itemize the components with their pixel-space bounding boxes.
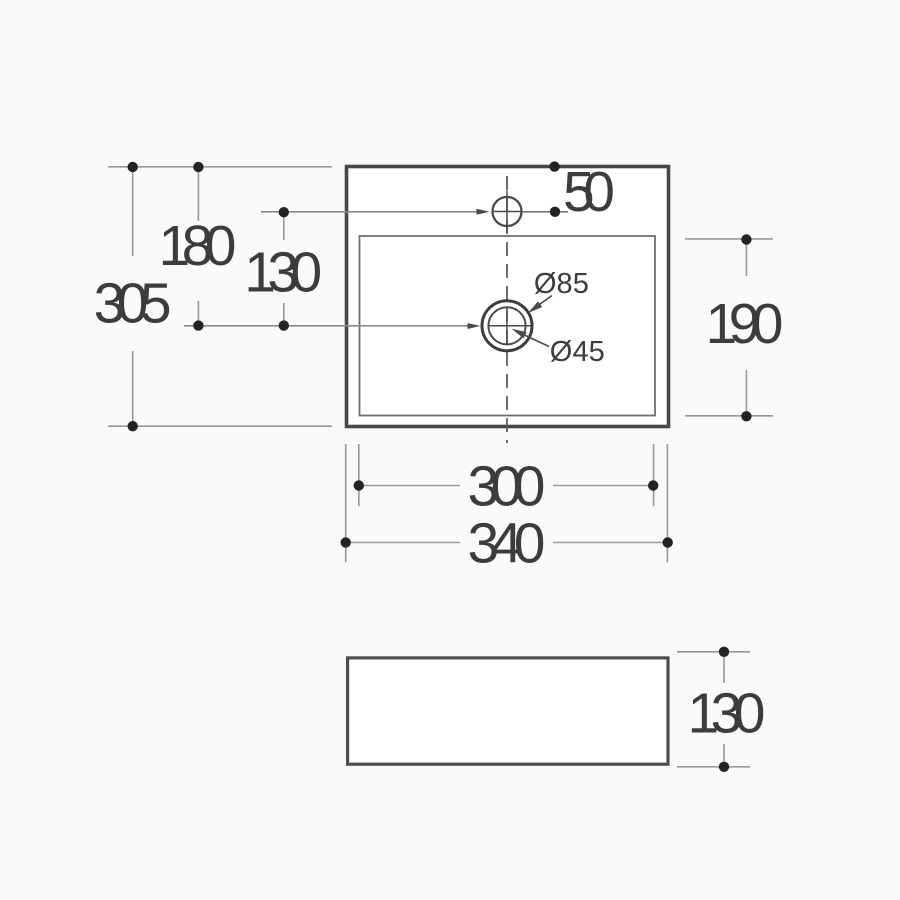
svg-text:Ø45: Ø45: [550, 336, 605, 368]
svg-text:130: 130: [244, 240, 322, 304]
svg-text:50: 50: [563, 160, 615, 224]
svg-text:130: 130: [688, 681, 766, 745]
svg-text:300: 300: [468, 455, 546, 519]
svg-text:190: 190: [706, 292, 784, 356]
svg-text:Ø85: Ø85: [534, 268, 589, 300]
svg-text:340: 340: [468, 512, 546, 576]
svg-text:180: 180: [159, 214, 237, 278]
svg-text:305: 305: [94, 272, 172, 336]
